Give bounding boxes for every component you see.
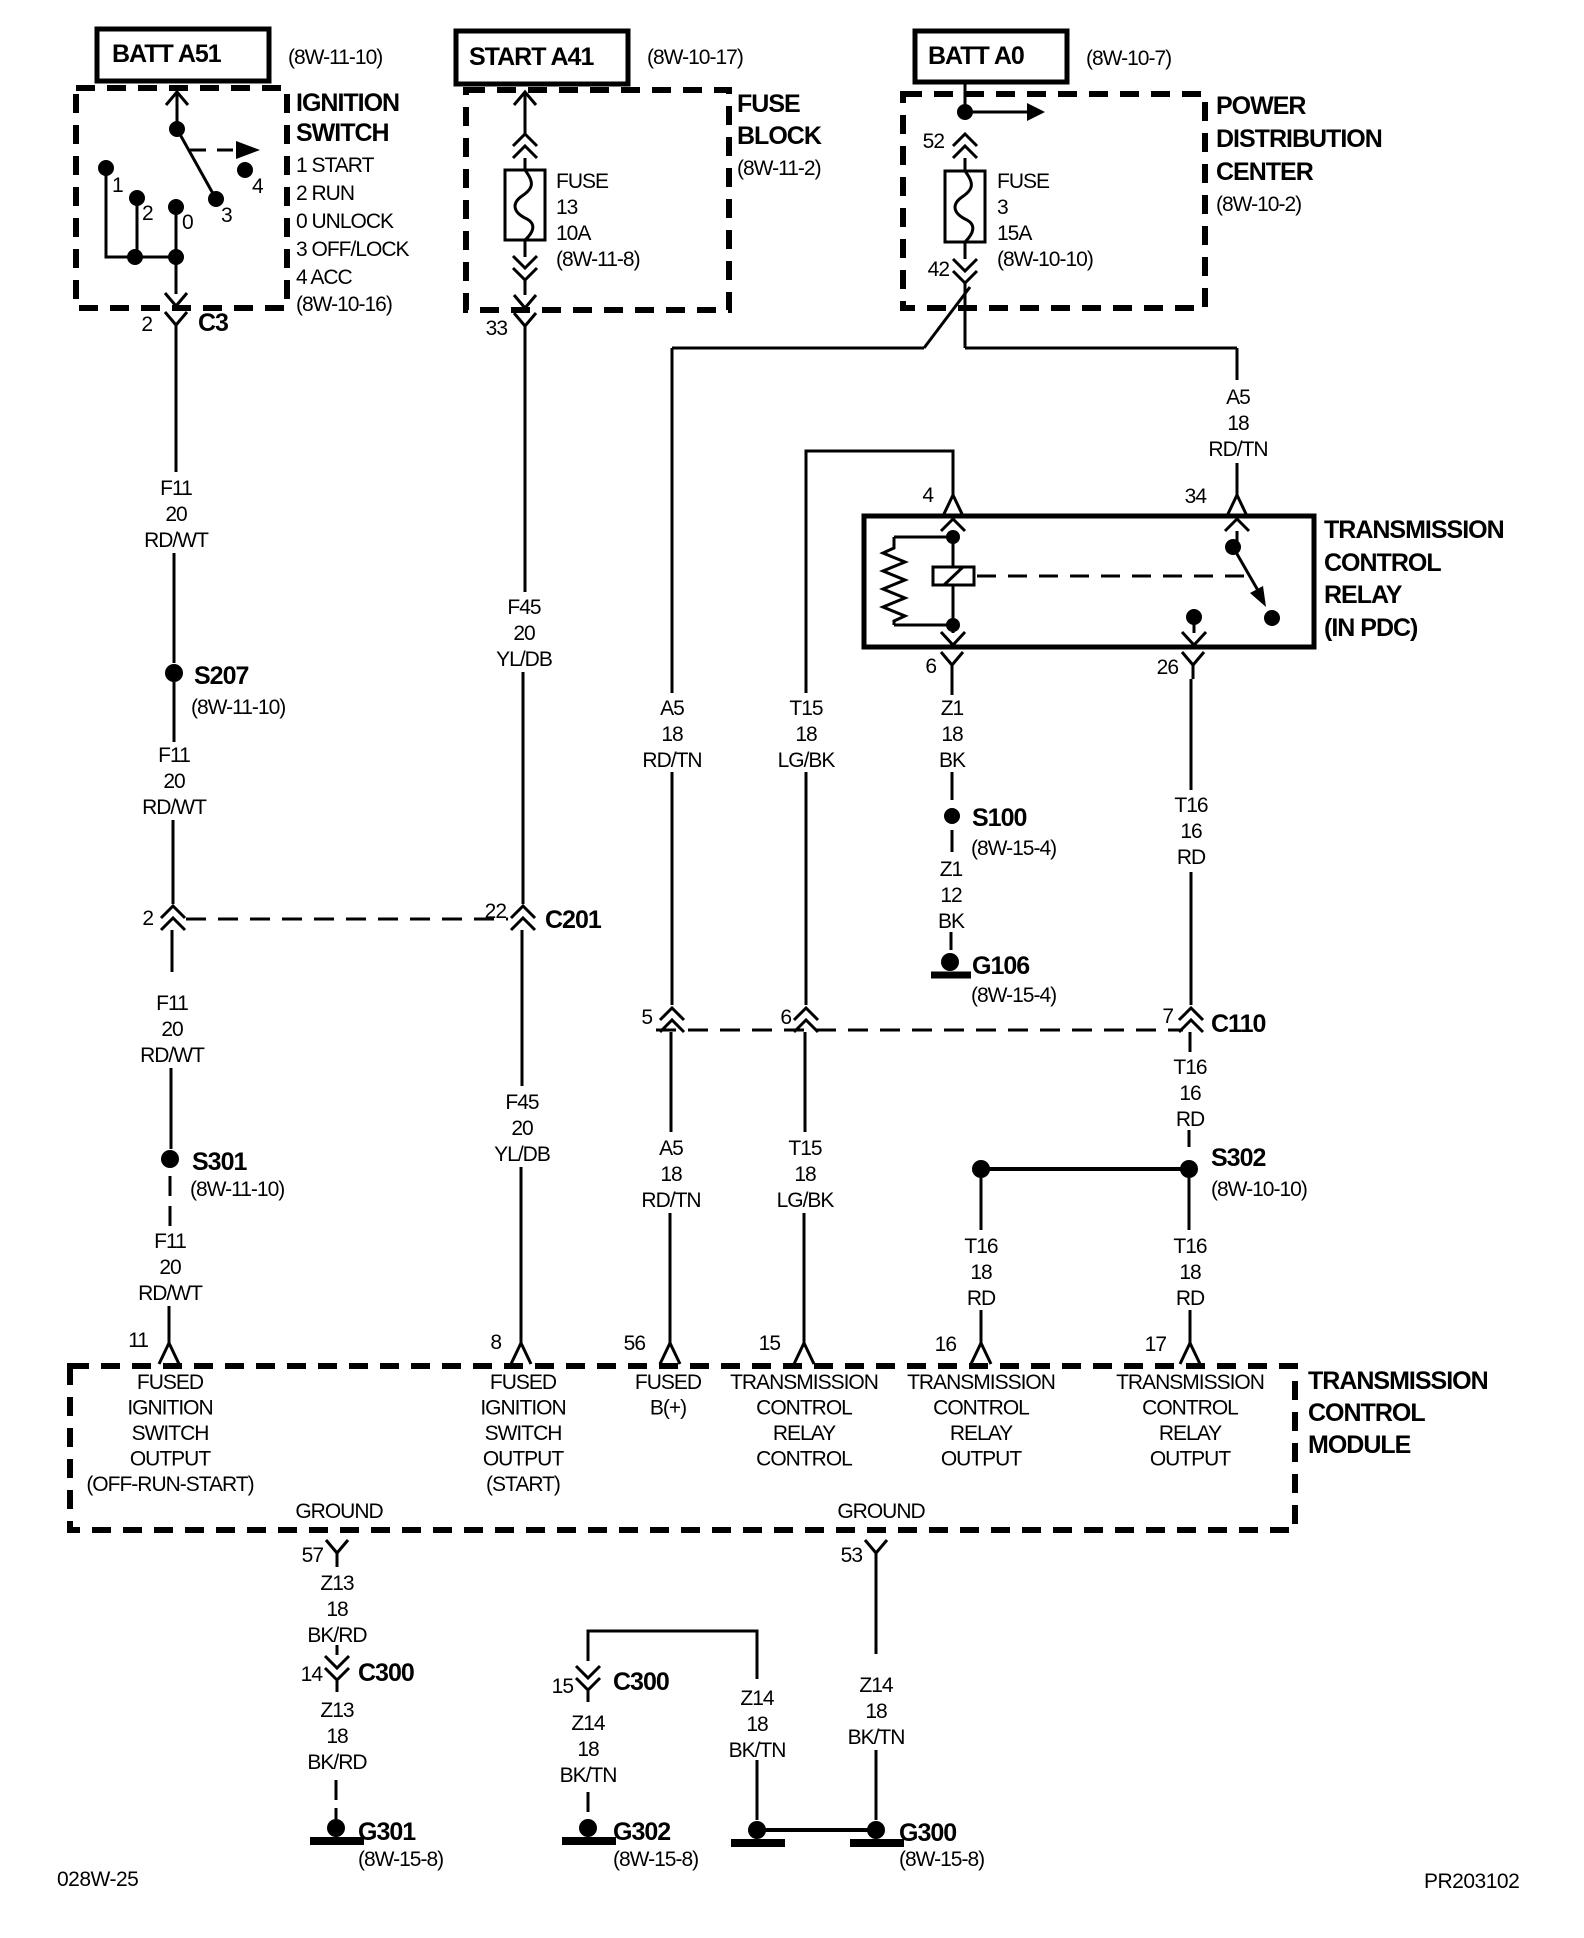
svg-text:T16: T16	[1174, 794, 1208, 817]
svg-text:14: 14	[301, 1663, 324, 1686]
svg-text:(8W-15-4): (8W-15-4)	[971, 837, 1056, 860]
svg-text:57: 57	[302, 1544, 324, 1567]
svg-text:7: 7	[1162, 1005, 1173, 1028]
svg-text:A5: A5	[660, 697, 684, 720]
svg-text:18: 18	[865, 1700, 887, 1723]
svg-text:18: 18	[326, 1725, 348, 1748]
A5 bus horizontal wire left	[672, 347, 924, 350]
svg-text:TRANSMISSION: TRANSMISSION	[1324, 516, 1504, 544]
PDC junction dot node A0	[957, 104, 973, 120]
svg-text:18: 18	[1227, 412, 1249, 435]
svg-text:028W-25: 028W-25	[57, 1868, 138, 1891]
wire T16 dashed segment	[1188, 1130, 1191, 1147]
svg-text:(8W-11-10): (8W-11-10)	[288, 46, 382, 69]
relay switch common dot	[1225, 539, 1241, 555]
wire Z14 dashed to ground G302	[587, 1792, 590, 1812]
svg-text:17: 17	[1145, 1333, 1167, 1356]
svg-text:Z13: Z13	[320, 1699, 354, 1722]
svg-text:20: 20	[163, 770, 185, 793]
svg-text:53: 53	[841, 1544, 863, 1567]
ignition switch internal wire contact1 to bus	[106, 172, 176, 257]
svg-text:B(+): B(+)	[650, 1397, 686, 1420]
svg-text:Z14: Z14	[740, 1687, 775, 1710]
wire T16 left to TCM pin 16	[980, 1310, 983, 1326]
connector C201 dashed interface line	[186, 918, 508, 921]
wire F45 from fuse block pin 33	[524, 339, 527, 592]
svg-text:OUTPUT: OUTPUT	[941, 1448, 1023, 1471]
svg-text:F45: F45	[507, 596, 541, 619]
svg-text:START A41: START A41	[469, 43, 594, 71]
svg-text:IGNITION: IGNITION	[480, 1397, 565, 1420]
power feed box START A41	[456, 31, 628, 84]
svg-text:S301: S301	[192, 1148, 247, 1176]
power feed box BATT A51	[97, 29, 269, 81]
wire A5 below C110	[670, 1032, 673, 1132]
ground G300	[867, 1821, 885, 1839]
svg-text:CONTROL: CONTROL	[1308, 1399, 1425, 1427]
svg-text:SWITCH: SWITCH	[296, 119, 389, 147]
svg-text:42: 42	[928, 258, 950, 281]
svg-text:18: 18	[746, 1713, 768, 1736]
svg-text:(OFF-RUN-START): (OFF-RUN-START)	[86, 1473, 253, 1496]
svg-text:G301: G301	[358, 1818, 416, 1846]
wire F11 below C201	[171, 930, 174, 972]
svg-text:BK/TN: BK/TN	[560, 1764, 617, 1787]
wire Z14 branch horizontal	[588, 1631, 757, 1679]
wire Z1 dashed segment	[951, 772, 954, 800]
svg-text:RELAY: RELAY	[1159, 1422, 1222, 1445]
svg-text:4: 4	[252, 175, 264, 198]
ignition switch junction dot B	[168, 249, 184, 265]
svg-text:4: 4	[922, 484, 934, 507]
svg-text:15: 15	[552, 1675, 574, 1698]
wire F11 below S301 dashed	[169, 1176, 172, 1196]
svg-text:(8W-10-10): (8W-10-10)	[997, 248, 1093, 271]
svg-text:CONTROL: CONTROL	[933, 1397, 1029, 1420]
wire F45 to connector C201 pin 22	[522, 672, 525, 904]
svg-text:18: 18	[661, 723, 683, 746]
svg-text:RELAY: RELAY	[773, 1422, 836, 1445]
svg-text:Z14: Z14	[859, 1674, 894, 1697]
wire Z14 middle branch to ground	[756, 1760, 759, 1820]
wire joining middle ground to G300	[757, 1828, 876, 1832]
wire T16 18 RD left branch	[980, 1178, 983, 1230]
svg-text:CONTROL: CONTROL	[1142, 1397, 1238, 1420]
svg-text:LG/BK: LG/BK	[777, 1189, 835, 1212]
wire T15 to TCM pin 15	[803, 1213, 806, 1326]
PDC wire below fuse 3	[964, 242, 967, 259]
svg-text:BATT A51: BATT A51	[112, 40, 222, 68]
wire T16 to connector C110 pin 7	[1190, 872, 1193, 1005]
connector C3 pin 2 symbol	[165, 312, 187, 325]
svg-text:16: 16	[935, 1333, 957, 1356]
wire F45 to TCM pin 8	[520, 1167, 523, 1326]
svg-text:(8W-15-8): (8W-15-8)	[613, 1848, 698, 1871]
svg-text:20: 20	[513, 622, 535, 645]
svg-text:12: 12	[940, 884, 962, 907]
svg-text:IGNITION: IGNITION	[127, 1397, 212, 1420]
svg-text:RD/TN: RD/TN	[642, 749, 701, 772]
svg-text:SWITCH: SWITCH	[132, 1422, 209, 1445]
ignition switch dashed box	[76, 88, 287, 308]
svg-text:G302: G302	[613, 1818, 670, 1846]
ground G106	[941, 953, 959, 971]
svg-text:FUSE: FUSE	[737, 90, 800, 118]
ground G301	[327, 1819, 345, 1837]
svg-text:FUSE: FUSE	[556, 170, 609, 193]
svg-text:26: 26	[1157, 656, 1179, 679]
wire from pin 42 down to A5 bus	[964, 283, 967, 348]
svg-text:20: 20	[161, 1018, 183, 1041]
svg-text:DISTRIBUTION: DISTRIBUTION	[1216, 125, 1382, 153]
svg-text:16: 16	[1179, 1082, 1201, 1105]
wire A5 to TCM pin 56	[669, 1213, 672, 1326]
svg-text:GROUND: GROUND	[837, 1500, 925, 1523]
svg-text:6: 6	[925, 655, 936, 678]
svg-text:BLOCK: BLOCK	[737, 122, 822, 150]
svg-text:T16: T16	[964, 1235, 998, 1258]
wire Z1 to ground	[950, 932, 953, 950]
svg-text:20: 20	[165, 503, 187, 526]
svg-text:22: 22	[485, 900, 507, 923]
connector C300 pin 14 chevrons	[336, 1645, 339, 1655]
svg-text:3: 3	[221, 204, 232, 227]
svg-text:RD: RD	[1176, 1108, 1205, 1131]
svg-text:18: 18	[795, 723, 817, 746]
svg-text:OUTPUT: OUTPUT	[483, 1448, 565, 1471]
wire T15 to connector C110 pin 6	[805, 772, 808, 1005]
svg-text:13: 13	[556, 196, 578, 219]
svg-text:(8W-15-8): (8W-15-8)	[358, 1848, 443, 1871]
svg-text:F11: F11	[160, 477, 192, 500]
svg-text:G300: G300	[899, 1819, 956, 1847]
svg-text:(8W-15-8): (8W-15-8)	[899, 1848, 984, 1871]
diagonal wire joining A5 bus	[924, 287, 970, 348]
connector pin 33 symbol	[514, 313, 536, 326]
svg-text:(8W-11-10): (8W-11-10)	[191, 696, 285, 719]
transmission control relay box	[864, 516, 1314, 647]
svg-text:F11: F11	[154, 1230, 186, 1253]
svg-text:RELAY: RELAY	[950, 1422, 1013, 1445]
svg-text:18: 18	[794, 1163, 816, 1186]
svg-text:2 RUN: 2 RUN	[296, 182, 354, 205]
svg-text:C300: C300	[613, 1668, 669, 1696]
svg-text:18: 18	[577, 1738, 599, 1761]
wire F11 to TCM pin 11	[168, 1306, 171, 1326]
svg-text:(8W-11-8): (8W-11-8)	[556, 248, 640, 271]
svg-text:C300: C300	[358, 1659, 414, 1687]
relay switch NO contact dot	[1264, 610, 1280, 626]
svg-text:(IN PDC): (IN PDC)	[1324, 614, 1418, 642]
svg-text:52: 52	[923, 130, 945, 153]
wire T16 right to TCM pin 17	[1189, 1310, 1192, 1326]
svg-text:FUSED: FUSED	[635, 1371, 702, 1394]
svg-text:3: 3	[997, 196, 1008, 219]
svg-text:SWITCH: SWITCH	[485, 1422, 562, 1445]
wire T15 below C110	[804, 1032, 807, 1132]
wire F11 below S207	[173, 682, 176, 742]
svg-text:18: 18	[326, 1598, 348, 1621]
fuse 3 15A	[945, 171, 985, 242]
relay pin 6 exit chevron	[952, 625, 955, 633]
svg-text:T15: T15	[788, 1137, 822, 1160]
svg-text:F45: F45	[505, 1091, 539, 1114]
wire F11 from C3	[175, 339, 178, 472]
svg-text:FUSE: FUSE	[997, 170, 1050, 193]
wire F11 to splice S301	[170, 1068, 173, 1149]
wire T16 below C110	[1189, 1032, 1192, 1052]
ground G302	[579, 1819, 597, 1837]
svg-text:GROUND: GROUND	[295, 1500, 383, 1523]
ignition switch rotor contact dot	[169, 121, 185, 137]
svg-text:YL/DB: YL/DB	[496, 648, 552, 671]
svg-text:F11: F11	[156, 992, 188, 1015]
svg-text:2: 2	[142, 202, 153, 225]
svg-text:G106: G106	[972, 952, 1029, 980]
fuse block dashed box	[466, 90, 729, 310]
svg-text:S302: S302	[1211, 1144, 1265, 1172]
svg-text:Z14: Z14	[571, 1712, 606, 1735]
power distribution center dashed box	[903, 94, 1205, 308]
svg-text:5: 5	[641, 1006, 652, 1029]
A5 bus horizontal wire right	[965, 347, 1237, 350]
svg-text:C3: C3	[198, 309, 228, 337]
wire BATT A0 into PDC	[964, 82, 967, 112]
svg-text:(8W-10-2): (8W-10-2)	[1216, 193, 1301, 216]
relay coil resistor wire bottom	[894, 624, 953, 627]
svg-text:C201: C201	[545, 906, 602, 934]
splice S207	[165, 664, 183, 682]
svg-text:TRANSMISSION: TRANSMISSION	[730, 1371, 878, 1394]
svg-text:18: 18	[1179, 1261, 1201, 1284]
svg-text:MODULE: MODULE	[1308, 1431, 1411, 1459]
PDC branch arrow to other circuits	[973, 111, 1029, 114]
svg-text:10A: 10A	[556, 222, 591, 245]
relay coil bottom junction dot	[946, 618, 960, 632]
ignition switch output wire to pin 2	[175, 257, 178, 294]
svg-text:RD: RD	[1176, 1287, 1205, 1310]
transmission control module dashed box	[70, 1366, 1295, 1530]
wire A5 from bus down	[671, 348, 674, 693]
svg-text:T16: T16	[1173, 1056, 1207, 1079]
svg-text:(8W-10-16): (8W-10-16)	[296, 293, 392, 316]
svg-text:T16: T16	[1173, 1235, 1207, 1258]
svg-text:0: 0	[182, 211, 193, 234]
svg-text:2: 2	[141, 313, 152, 336]
svg-text:FUSED: FUSED	[490, 1371, 557, 1394]
fuse 13 10A	[505, 170, 545, 240]
ignition switch contact 0	[168, 199, 184, 215]
svg-text:1: 1	[112, 174, 123, 197]
ignition switch rotation arrow	[190, 149, 238, 152]
svg-text:YL/DB: YL/DB	[494, 1143, 550, 1166]
svg-text:Z1: Z1	[940, 858, 963, 881]
svg-text:OUTPUT: OUTPUT	[1150, 1448, 1232, 1471]
svg-text:CONTROL: CONTROL	[1324, 549, 1441, 577]
relay switch arm	[1233, 547, 1260, 594]
svg-text:BK/TN: BK/TN	[848, 1726, 905, 1749]
svg-text:(START): (START)	[486, 1473, 560, 1496]
svg-text:BK/RD: BK/RD	[307, 1751, 367, 1774]
connector C110 dashed interface line	[656, 1029, 1183, 1032]
svg-text:6: 6	[780, 1006, 791, 1029]
svg-text:TRANSMISSION: TRANSMISSION	[1308, 1367, 1488, 1395]
relay actuation dashed link	[977, 575, 1250, 578]
ignition switch contact 1	[98, 160, 114, 176]
wire F11 to connector C201 pin 2	[172, 820, 175, 904]
svg-text:F11: F11	[158, 744, 190, 767]
svg-text:RD/TN: RD/TN	[641, 1189, 700, 1212]
svg-text:Z1: Z1	[941, 697, 964, 720]
svg-text:3 OFF/LOCK: 3 OFF/LOCK	[296, 238, 410, 261]
svg-text:CENTER: CENTER	[1216, 158, 1314, 186]
svg-text:(8W-15-4): (8W-15-4)	[971, 984, 1056, 1007]
ignition switch feed arrow to BATT A51	[166, 92, 188, 105]
svg-text:RD/WT: RD/WT	[138, 1282, 203, 1305]
svg-text:TRANSMISSION: TRANSMISSION	[1116, 1371, 1264, 1394]
svg-text:BK/TN: BK/TN	[729, 1739, 786, 1762]
fuse block internal connector chevrons bottom	[513, 256, 537, 268]
ground junction dot near G300	[748, 1821, 766, 1839]
wire Z1 from relay pin 6	[951, 679, 954, 695]
svg-text:RD/TN: RD/TN	[1208, 438, 1267, 461]
svg-text:4 ACC: 4 ACC	[296, 266, 353, 289]
relay coil element K1	[952, 537, 955, 625]
ignition switch contact 2	[129, 190, 145, 206]
svg-text:34: 34	[1185, 485, 1208, 508]
svg-text:OUTPUT: OUTPUT	[130, 1448, 212, 1471]
splice S302 branch junction dot	[972, 1160, 990, 1178]
wire T16 18 RD right branch	[1188, 1178, 1191, 1230]
svg-text:T15: T15	[789, 697, 823, 720]
svg-text:15A: 15A	[997, 222, 1032, 245]
svg-text:18: 18	[941, 723, 963, 746]
splice S302	[1180, 1160, 1198, 1178]
wire F11 to splice S207	[173, 553, 176, 663]
ignition switch output arrow at box edge	[165, 293, 187, 306]
relay coil top junction dot	[946, 530, 960, 544]
fuse block feed arrow to START A41	[514, 92, 536, 105]
svg-text:BK: BK	[939, 749, 966, 772]
wire Z14 from pin 53	[875, 1567, 878, 1654]
svg-text:8: 8	[490, 1331, 501, 1354]
fuse block output arrow at box edge	[514, 295, 536, 308]
svg-text:(8W-10-17): (8W-10-17)	[647, 46, 743, 69]
svg-text:S207: S207	[194, 662, 248, 690]
wire F45 below C201	[521, 930, 524, 1086]
svg-text:RD: RD	[967, 1287, 996, 1310]
svg-text:BATT A0: BATT A0	[928, 42, 1024, 70]
wire A5 to connector C110 pin 5	[671, 772, 674, 1005]
ignition switch internal wire contact2 drop	[136, 202, 139, 257]
fuse block internal connector chevrons top	[513, 134, 537, 146]
svg-text:20: 20	[159, 1256, 181, 1279]
svg-text:A5: A5	[659, 1137, 683, 1160]
svg-text:18: 18	[970, 1261, 992, 1284]
wire Z13 dashed to ground	[335, 1780, 338, 1800]
wire A5 to relay pin 34 drop	[1236, 348, 1239, 380]
svg-text:Z13: Z13	[320, 1572, 354, 1595]
svg-text:RD: RD	[1177, 846, 1206, 869]
svg-text:CONTROL: CONTROL	[756, 1448, 852, 1471]
svg-text:S100: S100	[972, 804, 1026, 832]
svg-text:FUSED: FUSED	[137, 1371, 204, 1394]
svg-text:16: 16	[1180, 820, 1202, 843]
svg-text:(8W-11-2): (8W-11-2)	[737, 157, 821, 180]
svg-text:RD/WT: RD/WT	[142, 796, 207, 819]
relay pin 26 contact dot	[1186, 609, 1202, 625]
splice S301	[161, 1150, 179, 1168]
svg-text:RELAY: RELAY	[1324, 581, 1403, 609]
svg-text:1 START: 1 START	[296, 154, 375, 177]
ignition switch contact 3	[208, 191, 224, 207]
svg-text:RD/WT: RD/WT	[144, 529, 209, 552]
ignition switch contact 4	[237, 162, 253, 178]
splice S100	[944, 808, 960, 824]
svg-text:15: 15	[759, 1332, 781, 1355]
svg-text:RD/WT: RD/WT	[140, 1044, 205, 1067]
svg-text:(8W-11-10): (8W-11-10)	[190, 1178, 284, 1201]
svg-text:TRANSMISSION: TRANSMISSION	[907, 1371, 1055, 1394]
power feed box BATT A0	[915, 31, 1067, 82]
svg-text:(8W-10-7): (8W-10-7)	[1086, 47, 1171, 70]
svg-text:BK/RD: BK/RD	[307, 1624, 367, 1647]
splice S302 branch horizontal wire	[981, 1167, 1189, 1171]
svg-text:18: 18	[660, 1163, 682, 1186]
svg-text:C110: C110	[1211, 1010, 1265, 1038]
svg-text:BK: BK	[938, 910, 965, 933]
wire Z14 to ground G300	[875, 1750, 878, 1820]
svg-text:56: 56	[624, 1332, 646, 1355]
relay pin 26 exit chevron	[1193, 617, 1196, 633]
relay coil resistor wire top	[894, 536, 953, 539]
svg-text:POWER: POWER	[1216, 92, 1306, 120]
svg-text:IGNITION: IGNITION	[296, 89, 399, 117]
relay coil resistor zigzag	[883, 537, 905, 625]
svg-text:0 UNLOCK: 0 UNLOCK	[296, 210, 394, 233]
wire T15 from relay pin 4 horizontal	[806, 451, 953, 693]
svg-text:A5: A5	[1226, 386, 1250, 409]
svg-text:LG/BK: LG/BK	[778, 749, 836, 772]
svg-text:11: 11	[128, 1329, 148, 1352]
ignition switch internal wire contact0 drop	[175, 211, 178, 257]
wire Z1 dashed segment 2	[951, 830, 954, 852]
svg-text:33: 33	[486, 317, 508, 340]
svg-text:PR203102: PR203102	[1424, 1870, 1519, 1893]
ignition switch rotor arm	[177, 129, 216, 199]
svg-text:20: 20	[511, 1117, 533, 1140]
fuse block wire below fuse 13	[524, 240, 527, 257]
wire T16 from relay pin 26	[1190, 679, 1193, 790]
svg-text:(8W-10-10): (8W-10-10)	[1211, 1178, 1307, 1201]
svg-text:2: 2	[142, 907, 153, 930]
svg-text:CONTROL: CONTROL	[756, 1397, 852, 1420]
ignition switch junction dot A	[127, 249, 143, 265]
